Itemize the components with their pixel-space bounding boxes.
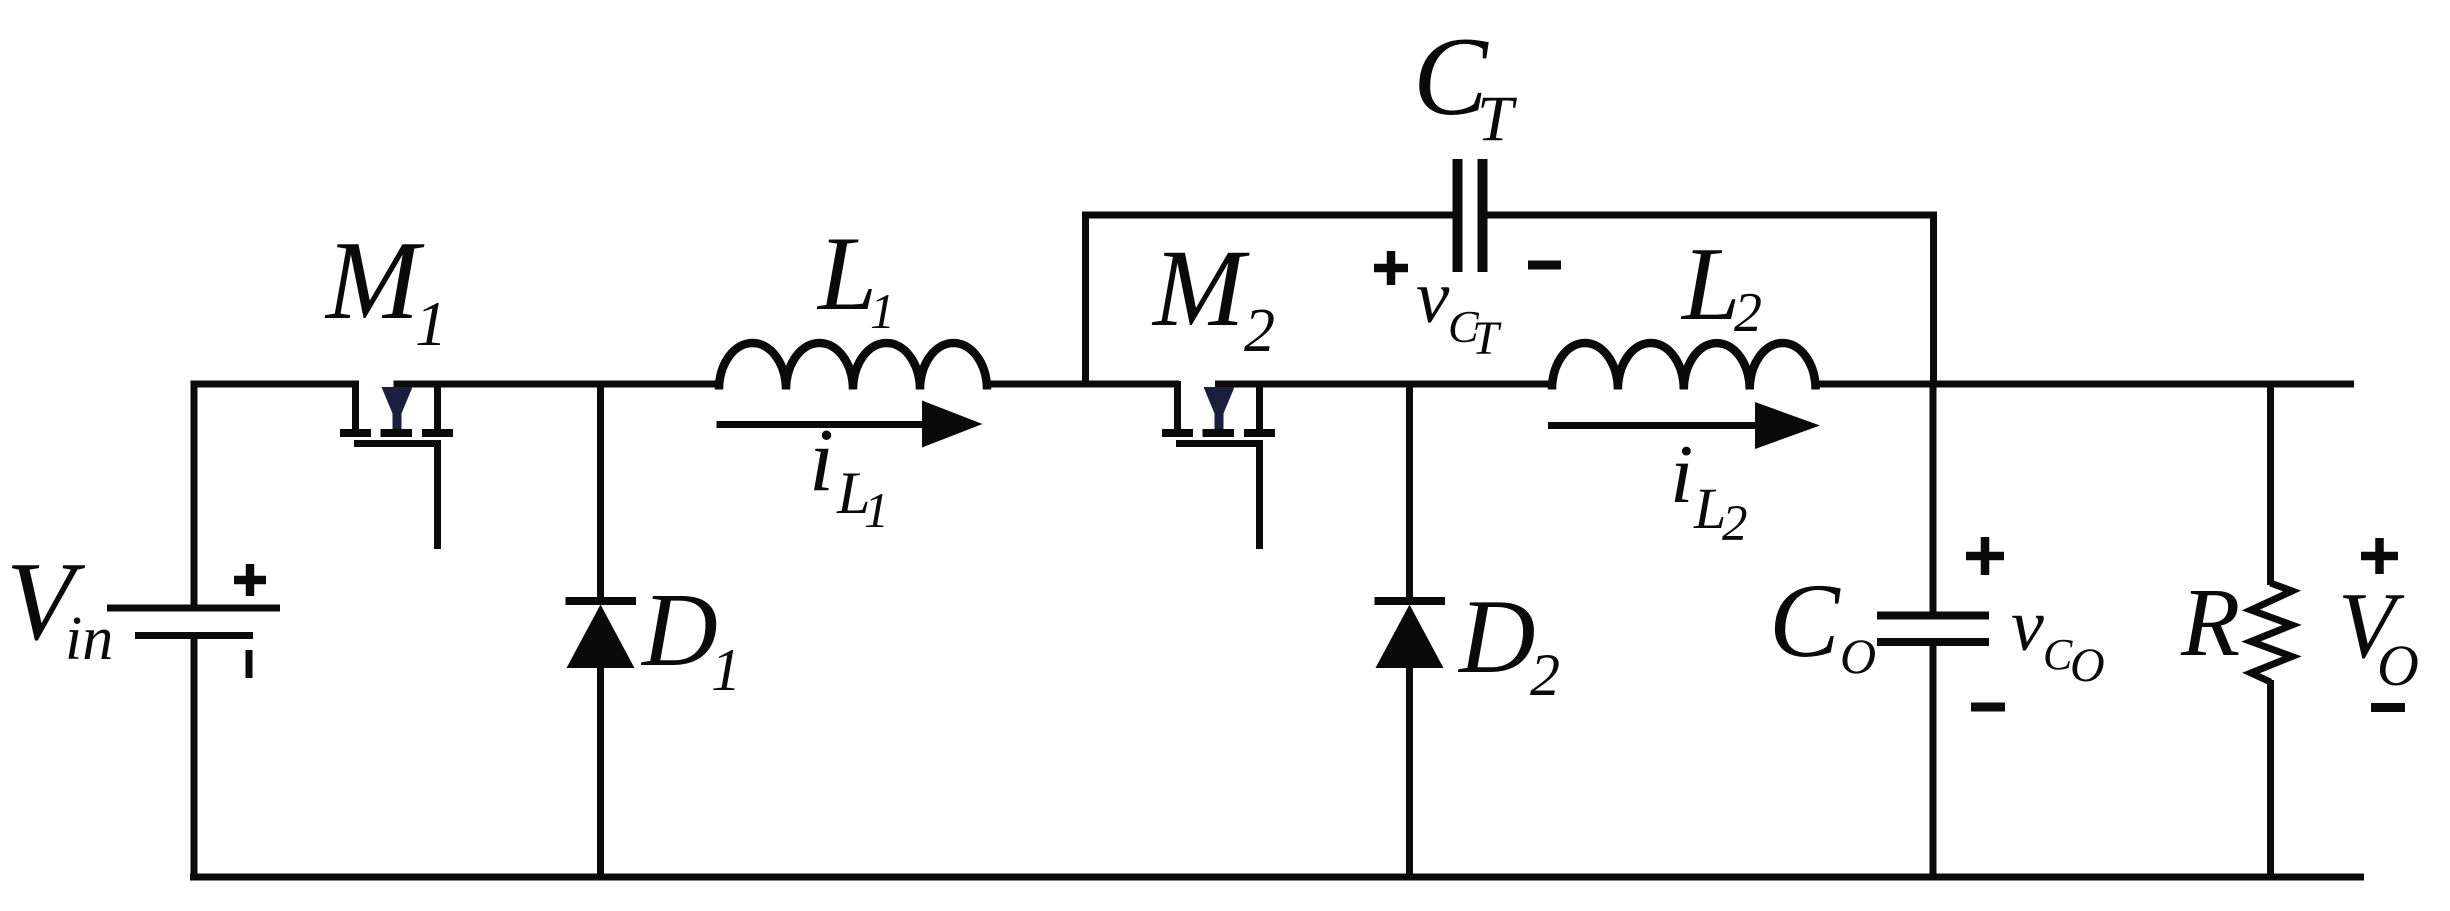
node junction D2 top [1406,384,1413,601]
wire CT branch left vertical [1082,212,1089,385]
wire top rail from M1 source to L1 [394,381,722,388]
label L1 [816,215,895,339]
wire R branch upper vertical [2267,384,2274,585]
wire CO branch upper vertical [1930,384,1937,615]
wire bottom rail [190,874,2364,881]
plus sign vCT [1374,251,1408,285]
wire R branch lower vertical [2267,680,2274,881]
svg-text:T: T [1477,83,1517,155]
label CT [1413,15,1517,155]
label iL1 [809,411,889,538]
transistor M1 [340,381,453,549]
node junction D1 top [597,384,604,601]
label D2 [1457,578,1560,708]
label vCO [2011,585,2105,692]
svg-text:M: M [1151,227,1250,349]
svg-text:T: T [1472,312,1502,365]
current arrow iL1 [717,401,983,448]
svg-text:R: R [2180,569,2240,676]
svg-text:O: O [2070,639,2105,692]
wire left vertical lower (Vin - terminal to bottom rail) [191,635,198,881]
transistor M2 [1162,381,1275,549]
svg-text:v: v [2011,585,2044,667]
svg-text:in: in [65,605,113,673]
wire top rail from M2 source to L2 [1215,381,1554,388]
plus sign Vin [234,564,266,596]
label vCT [1416,256,1502,365]
wire CO branch lower vertical [1930,642,1937,881]
battery Vin [107,608,280,636]
capacitor CO [1877,616,1989,643]
diode D2 [1375,601,1446,668]
label iL2 [1670,428,1748,552]
plus sign vCO [1966,537,2004,575]
svg-text:O: O [2377,633,2419,698]
inductor L1 [719,343,987,390]
current arrow iL2 [1548,402,1820,449]
svg-text:L: L [816,215,877,332]
svg-text:1: 1 [870,283,895,339]
label L2 [1680,225,1762,344]
svg-text:C: C [1769,562,1841,679]
svg-text:O: O [1840,628,1876,684]
wire CT branch top right [1487,212,1937,219]
svg-text:2: 2 [1734,282,1762,344]
svg-text:i: i [1670,428,1693,521]
wire CT branch right vertical [1930,212,1937,385]
wire CT branch top left [1082,212,1453,219]
label CO [1769,562,1876,684]
wire left vertical upper (Vin + terminal to top rail) [191,381,198,609]
capacitor CT [1458,159,1483,272]
svg-text:M: M [324,219,425,343]
minus sign Vin (vertical tick) [246,650,253,678]
diode D1 [566,601,637,668]
minus sign vCT [1528,261,1561,270]
resistor R [2251,583,2292,682]
minus sign vCO [1971,703,2005,712]
svg-text:1: 1 [864,482,889,538]
wire D1 bottom vertical [597,665,604,877]
label VO [2338,574,2419,698]
svg-text:2: 2 [1530,642,1560,708]
label Vin [6,540,113,673]
svg-text:1: 1 [711,637,741,703]
svg-text:2: 2 [1722,496,1748,552]
svg-text:L: L [1680,225,1740,342]
plus sign VO [2361,538,2398,574]
inductor L2 [1552,343,1816,390]
label M1 [324,219,447,359]
wire D2 bottom vertical [1406,665,1413,877]
wire top rail from L1 to M2 drain [985,381,1179,388]
svg-text:D: D [1457,578,1536,695]
wire top rail from L2 to right end [1813,381,2354,388]
svg-text:D: D [640,571,718,688]
label D1 [640,571,741,703]
wire top rail from left corner to M1 drain [191,381,360,388]
svg-text:1: 1 [415,288,447,359]
minus sign VO [2371,703,2405,712]
svg-text:v: v [1416,256,1450,339]
svg-text:i: i [809,411,834,510]
svg-text:2: 2 [1244,297,1275,365]
svg-text:C: C [2043,630,2073,679]
label M2 [1151,227,1275,365]
